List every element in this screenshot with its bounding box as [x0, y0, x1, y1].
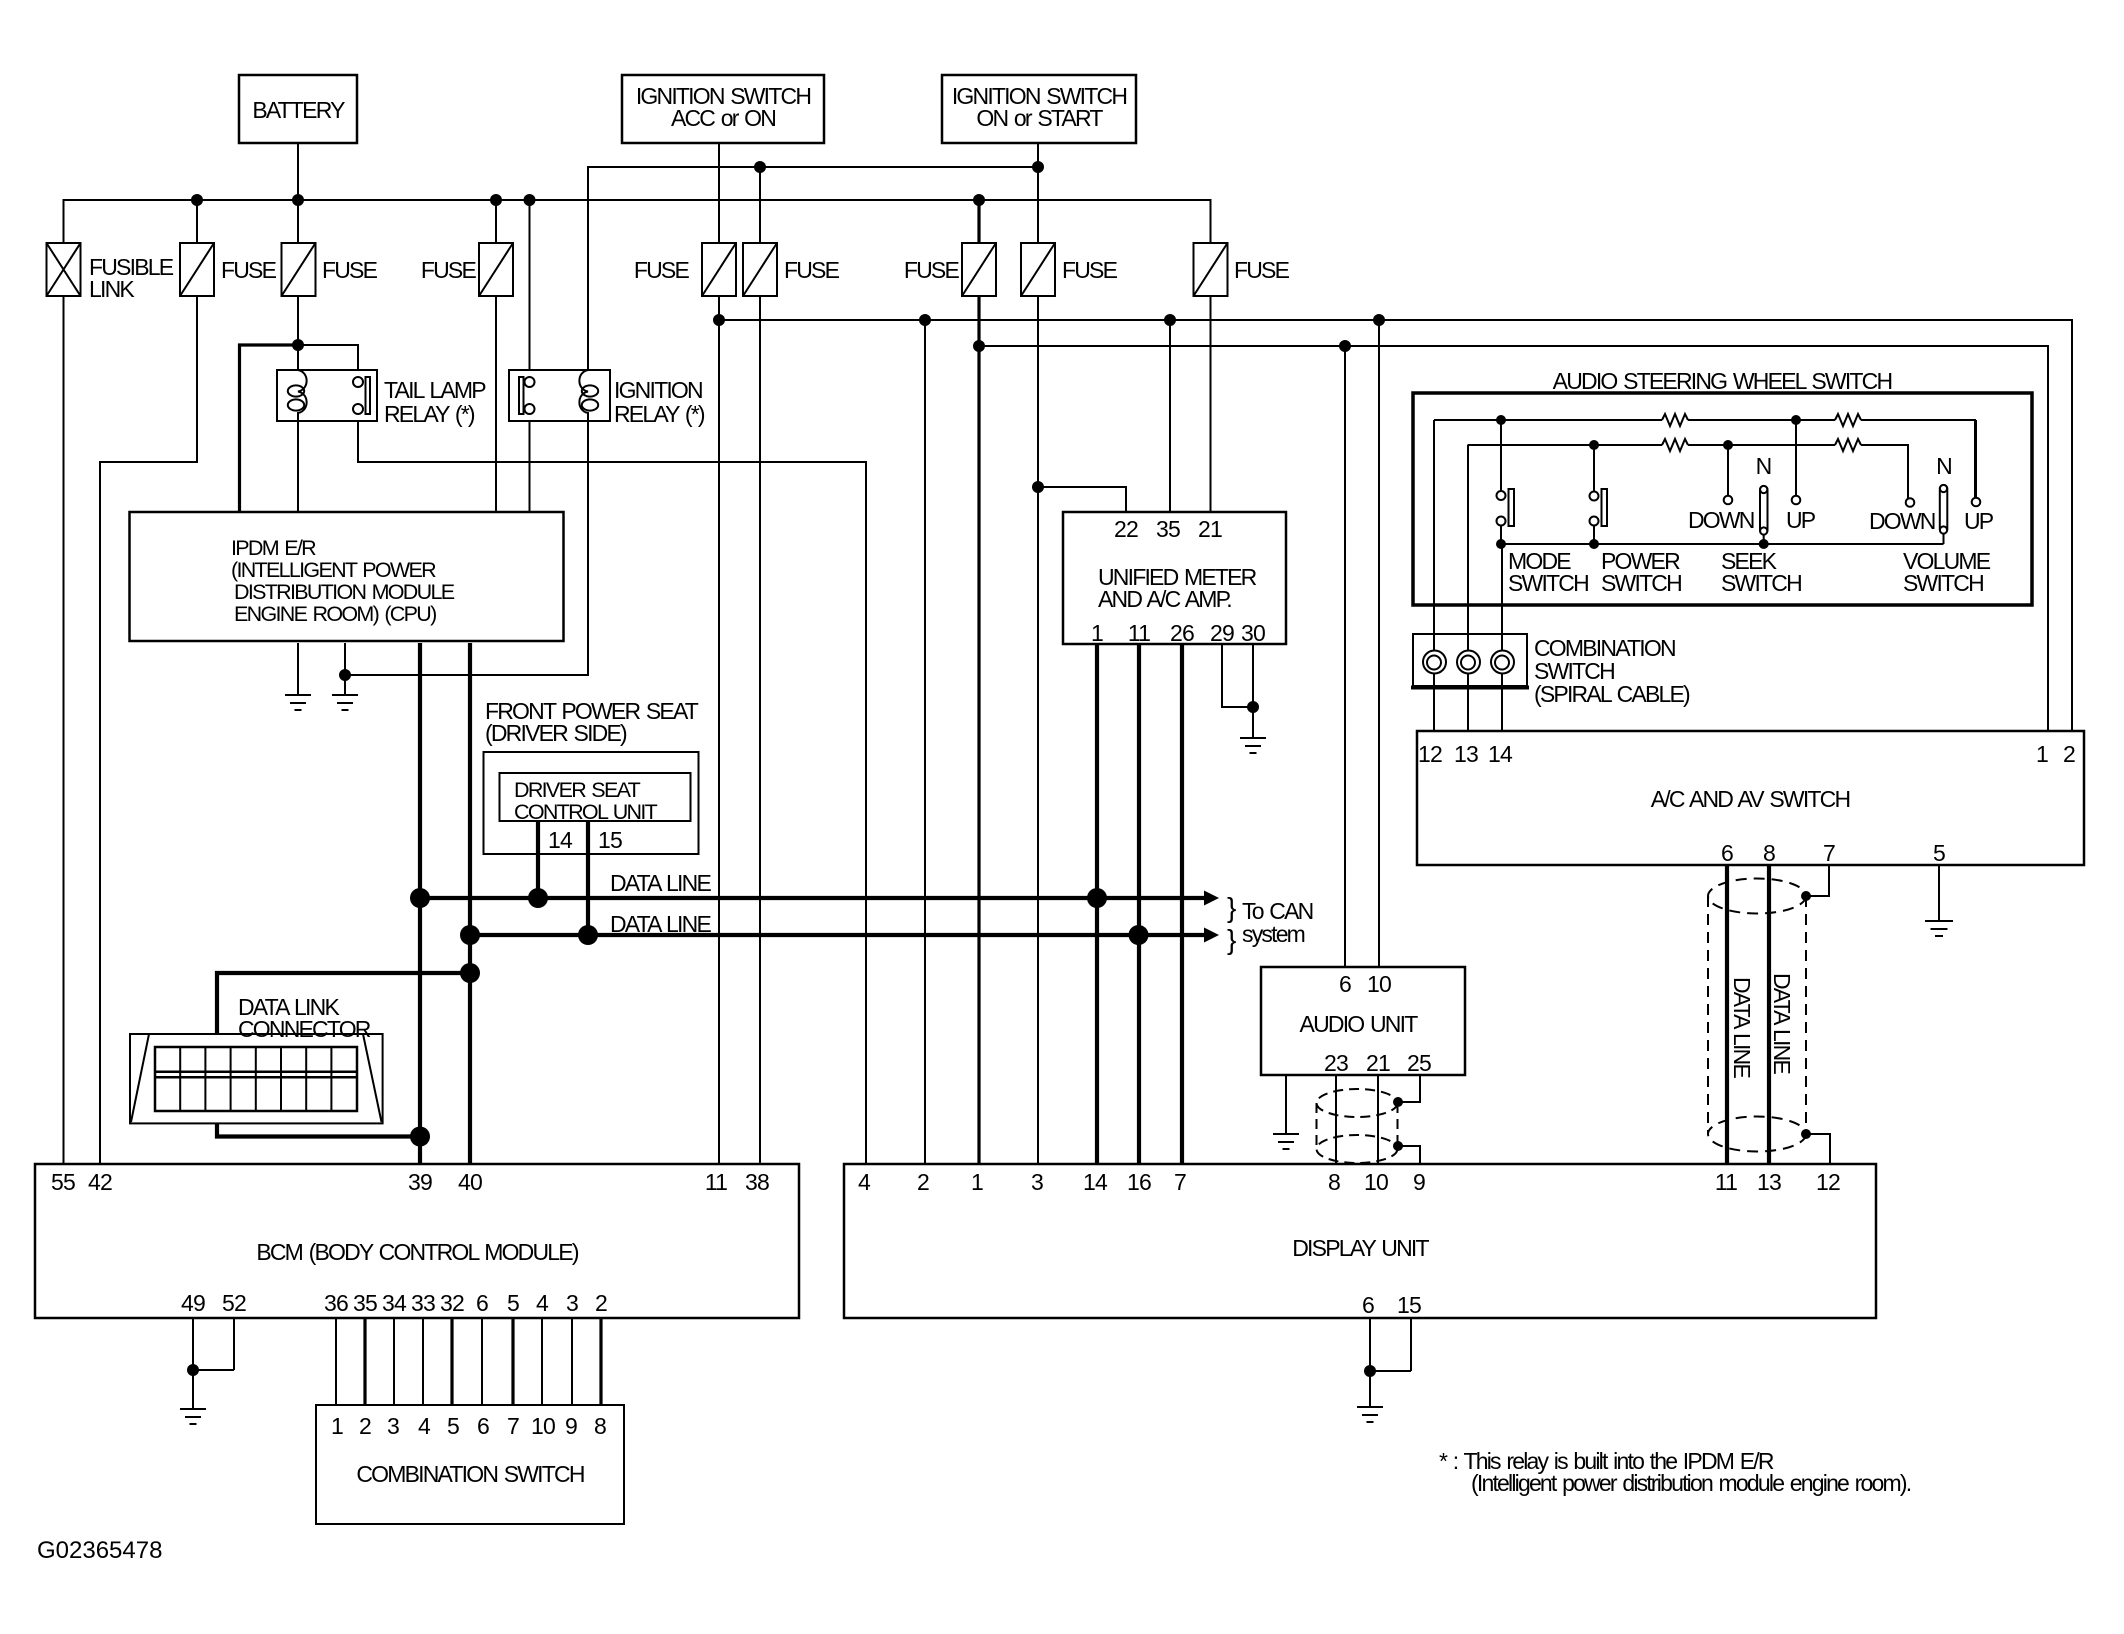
svg-text:FUSE: FUSE	[784, 257, 840, 283]
svg-text:8: 8	[1763, 840, 1775, 866]
svg-text:1: 1	[2036, 741, 2048, 767]
svg-text:ACC or ON: ACC or ON	[671, 105, 775, 131]
svg-text:ON or START: ON or START	[976, 105, 1103, 131]
svg-text:UP: UP	[1964, 508, 1994, 534]
svg-text:5: 5	[507, 1290, 519, 1316]
svg-text:FUSE: FUSE	[322, 257, 378, 283]
svg-text:DATA LINE: DATA LINE	[610, 911, 711, 937]
svg-text:FUSE: FUSE	[1062, 257, 1118, 283]
svg-text:40: 40	[458, 1169, 482, 1195]
svg-text:49: 49	[181, 1290, 205, 1316]
svg-text:RELAY (*): RELAY (*)	[384, 401, 475, 427]
svg-text:36: 36	[324, 1290, 348, 1316]
svg-text:35: 35	[353, 1290, 377, 1316]
svg-text:1: 1	[1091, 620, 1103, 646]
svg-text:21: 21	[1198, 516, 1222, 542]
svg-text:2: 2	[359, 1413, 371, 1439]
svg-text:BCM (BODY CONTROL MODULE): BCM (BODY CONTROL MODULE)	[256, 1239, 579, 1265]
svg-text:DATA LINE: DATA LINE	[1729, 977, 1755, 1078]
svg-text:2: 2	[2063, 741, 2075, 767]
svg-text:AND A/C AMP.: AND A/C AMP.	[1098, 586, 1231, 612]
svg-text:16: 16	[1127, 1169, 1151, 1195]
svg-text:10: 10	[1367, 971, 1391, 997]
svg-text:15: 15	[1397, 1292, 1421, 1318]
svg-text:ENGINE ROOM) (CPU): ENGINE ROOM) (CPU)	[234, 602, 436, 626]
svg-text:4: 4	[858, 1169, 871, 1195]
svg-text:DRIVER SEAT: DRIVER SEAT	[514, 778, 641, 802]
svg-text:32: 32	[440, 1290, 464, 1316]
svg-text:21: 21	[1366, 1050, 1390, 1076]
svg-text:G02365478: G02365478	[37, 1537, 162, 1564]
svg-text:FUSE: FUSE	[904, 257, 960, 283]
svg-text:4: 4	[418, 1413, 431, 1439]
svg-text:SWITCH: SWITCH	[1508, 570, 1588, 596]
svg-text:6: 6	[1339, 971, 1351, 997]
svg-text:10: 10	[531, 1413, 555, 1439]
svg-text:2: 2	[595, 1290, 607, 1316]
svg-text:22: 22	[1114, 516, 1138, 542]
svg-text:SWITCH: SWITCH	[1903, 570, 1983, 596]
svg-text:5: 5	[447, 1413, 459, 1439]
svg-text:N: N	[1936, 453, 1951, 479]
svg-text:23: 23	[1324, 1050, 1348, 1076]
svg-text:8: 8	[594, 1413, 606, 1439]
svg-text:25: 25	[1407, 1050, 1431, 1076]
svg-text:55: 55	[51, 1169, 75, 1195]
svg-text:SWITCH: SWITCH	[1721, 570, 1801, 596]
svg-text:6: 6	[1362, 1292, 1374, 1318]
svg-text:3: 3	[566, 1290, 578, 1316]
svg-text:5: 5	[1933, 840, 1945, 866]
svg-text:7: 7	[507, 1413, 519, 1439]
svg-text:FUSE: FUSE	[221, 257, 277, 283]
svg-text:DISTRIBUTION MODULE: DISTRIBUTION MODULE	[234, 580, 455, 604]
svg-text:(SPIRAL CABLE): (SPIRAL CABLE)	[1534, 681, 1690, 707]
svg-text:12: 12	[1418, 741, 1442, 767]
svg-text:7: 7	[1823, 840, 1835, 866]
svg-text:FUSE: FUSE	[634, 257, 690, 283]
svg-text:A/C AND AV SWITCH: A/C AND AV SWITCH	[1651, 786, 1850, 812]
svg-text:1: 1	[971, 1169, 983, 1195]
svg-text:(DRIVER SIDE): (DRIVER SIDE)	[485, 720, 627, 746]
svg-text:1: 1	[331, 1413, 343, 1439]
svg-text:11: 11	[1715, 1169, 1737, 1195]
svg-text:SWITCH: SWITCH	[1601, 570, 1681, 596]
svg-text:12: 12	[1816, 1169, 1840, 1195]
svg-text:35: 35	[1156, 516, 1180, 542]
svg-text:6: 6	[476, 1290, 488, 1316]
svg-text:IPDM E/R: IPDM E/R	[231, 536, 316, 560]
svg-text:(INTELLIGENT POWER: (INTELLIGENT POWER	[231, 558, 436, 582]
svg-text:9: 9	[1413, 1169, 1425, 1195]
svg-text:DISPLAY UNIT: DISPLAY UNIT	[1292, 1235, 1429, 1261]
svg-text:9: 9	[565, 1413, 577, 1439]
svg-text:}: }	[1227, 924, 1236, 955]
svg-text:11: 11	[705, 1169, 727, 1195]
svg-text:14: 14	[548, 827, 573, 853]
svg-text:26: 26	[1170, 620, 1194, 646]
svg-text:RELAY (*): RELAY (*)	[614, 401, 705, 427]
svg-text:6: 6	[1721, 840, 1733, 866]
svg-text:34: 34	[382, 1290, 407, 1316]
svg-text:29: 29	[1210, 620, 1234, 646]
svg-text:FUSE: FUSE	[1234, 257, 1290, 283]
svg-text:DATA LINE: DATA LINE	[1769, 973, 1795, 1074]
svg-text:N: N	[1756, 453, 1771, 479]
svg-text:39: 39	[408, 1169, 432, 1195]
svg-text:CONNECTOR: CONNECTOR	[238, 1016, 371, 1042]
svg-text:AUDIO STEERING WHEEL SWITCH: AUDIO STEERING WHEEL SWITCH	[1553, 368, 1892, 394]
svg-text:LINK: LINK	[89, 276, 135, 302]
svg-text:}: }	[1227, 892, 1236, 923]
svg-text:10: 10	[1364, 1169, 1388, 1195]
svg-text:FUSE: FUSE	[421, 257, 477, 283]
svg-text:3: 3	[1031, 1169, 1043, 1195]
svg-text:42: 42	[88, 1169, 112, 1195]
svg-text:3: 3	[387, 1413, 399, 1439]
svg-text:38: 38	[745, 1169, 769, 1195]
svg-text:14: 14	[1083, 1169, 1108, 1195]
svg-text:2: 2	[917, 1169, 929, 1195]
svg-text:AUDIO UNIT: AUDIO UNIT	[1300, 1011, 1419, 1037]
svg-text:CONTROL UNIT: CONTROL UNIT	[514, 800, 658, 824]
svg-text:TAIL LAMP: TAIL LAMP	[384, 377, 486, 403]
svg-text:8: 8	[1328, 1169, 1340, 1195]
svg-text:UP: UP	[1786, 507, 1816, 533]
svg-text:COMBINATION SWITCH: COMBINATION SWITCH	[356, 1461, 583, 1487]
svg-text:7: 7	[1174, 1169, 1186, 1195]
svg-text:DATA LINE: DATA LINE	[610, 870, 711, 896]
svg-text:4: 4	[536, 1290, 549, 1316]
svg-text:IGNITION: IGNITION	[614, 377, 702, 403]
svg-text:system: system	[1242, 921, 1305, 947]
svg-text:13: 13	[1757, 1169, 1781, 1195]
svg-text:30: 30	[1241, 620, 1265, 646]
svg-text:33: 33	[411, 1290, 435, 1316]
svg-text:13: 13	[1454, 741, 1478, 767]
svg-text:(Intelligent power distributio: (Intelligent power distribution module e…	[1471, 1470, 1911, 1496]
svg-text:6: 6	[477, 1413, 489, 1439]
svg-text:52: 52	[222, 1290, 246, 1316]
svg-text:14: 14	[1488, 741, 1513, 767]
svg-text:DOWN: DOWN	[1688, 507, 1754, 533]
svg-text:DOWN: DOWN	[1869, 508, 1935, 534]
svg-text:15: 15	[598, 827, 622, 853]
svg-text:11: 11	[1128, 620, 1150, 646]
svg-text:BATTERY: BATTERY	[252, 97, 345, 123]
